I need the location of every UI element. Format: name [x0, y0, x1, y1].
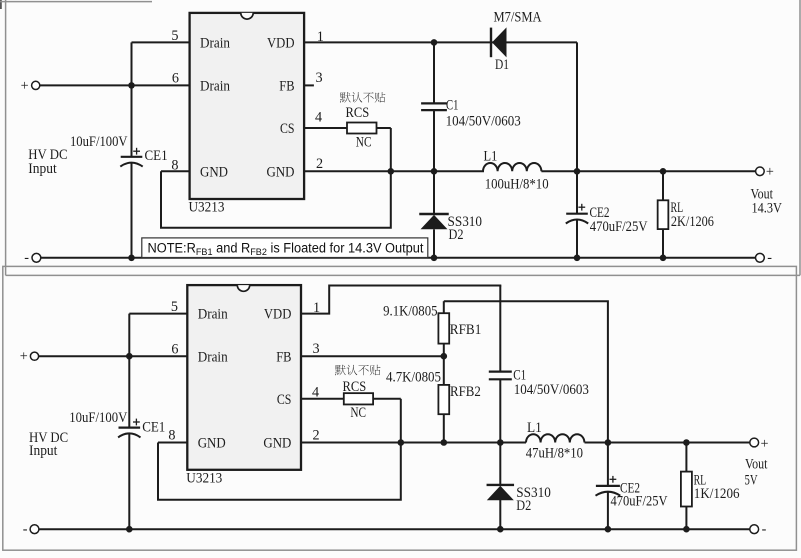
- pin number 4 top: [315, 110, 322, 126]
- node input junction CE1 top: [128, 82, 135, 89]
- label RCS top: [346, 105, 370, 121]
- resistor RL top: [658, 171, 669, 257]
- wire pin4 CS top: [304, 127, 347, 129]
- pin number 3 top: [316, 70, 323, 86]
- svg-text:5: 5: [171, 28, 178, 44]
- wire pin8 stub bottom: [158, 442, 187, 444]
- node C1/D2 junction bottom: [497, 439, 504, 446]
- diode D1 M7/SMA: [491, 27, 507, 57]
- svg-text:GND: GND: [263, 436, 291, 452]
- op-amp U1 IC U3213 top: [190, 13, 305, 199]
- label NC bottom: [350, 405, 366, 421]
- wire pin5 bottom: [129, 313, 187, 315]
- terminal - input bottom: [23, 521, 39, 537]
- wire pin5 top: [132, 41, 190, 43]
- node RL bottom rail: [683, 526, 690, 533]
- svg-text:-: -: [23, 521, 28, 537]
- pin number 6 bottom: [171, 342, 178, 358]
- label D2 bottom: [516, 498, 531, 514]
- inductor L1 bottom: [526, 434, 584, 442]
- svg-text:Input: Input: [28, 161, 56, 177]
- svg-text:4.7K/0805: 4.7K/0805: [386, 370, 441, 386]
- wire RCS to node top: [377, 128, 391, 171]
- svg-text:6: 6: [171, 342, 178, 358]
- inductor L1 top: [483, 163, 541, 171]
- pin number 8 top: [171, 157, 178, 173]
- node CE2 junction top: [574, 168, 581, 175]
- svg-text:6: 6: [172, 71, 179, 87]
- pin number 5 top: [171, 28, 178, 44]
- wire pin6 input rail bottom: [39, 355, 188, 357]
- node RL bottom top: [660, 254, 667, 261]
- resistor RCS top: [347, 123, 377, 134]
- svg-text:CE1: CE1: [142, 419, 165, 435]
- pin number 1 bottom: [313, 300, 320, 316]
- node loop junction bottom: [398, 439, 405, 446]
- svg-text:FB: FB: [276, 349, 291, 365]
- node C1 tap top: [431, 39, 438, 46]
- svg-text:CS: CS: [277, 392, 292, 408]
- svg-text:L1: L1: [484, 148, 498, 164]
- capacitor CE1 top: [120, 85, 142, 257]
- label RCS bottom: [343, 379, 367, 395]
- svg-text:10uF/100V: 10uF/100V: [69, 410, 128, 426]
- label U3213 top: [189, 200, 225, 216]
- svg-text:D2: D2: [449, 227, 464, 243]
- label D1: [495, 57, 509, 73]
- node input junction CE1 bottom: [126, 353, 133, 360]
- label 2K/1206 top: [671, 214, 714, 230]
- label default-not-mounted bottom: [335, 365, 380, 376]
- wire feedback top rail bottom: [444, 301, 608, 442]
- pin labels IC top: [200, 35, 295, 180]
- label 9.1K/0805: [383, 303, 437, 319]
- wire pin8 stub top: [161, 170, 190, 172]
- wire pin6 input rail top: [40, 84, 190, 86]
- label SS310 top: [448, 214, 483, 230]
- wire output rail bottom: [585, 442, 751, 444]
- note box floated FB: [142, 238, 428, 258]
- node RL junction top: [660, 168, 667, 175]
- node RL junction bottom: [683, 439, 690, 446]
- label 104/50V/0603 bottom: [514, 382, 589, 398]
- label C1 top: [446, 97, 458, 113]
- svg-text:CE1: CE1: [145, 148, 168, 164]
- wire pin1 VDD bottom: [301, 286, 500, 314]
- wire pin8 ground loop bottom: [158, 443, 401, 500]
- svg-text:Vout: Vout: [745, 457, 767, 473]
- svg-text:100uH/8*10: 100uH/8*10: [485, 177, 549, 193]
- terminal + output bottom: [750, 436, 769, 452]
- node CE2 junction bottom: [605, 439, 612, 446]
- svg-text:Drain: Drain: [200, 35, 230, 51]
- terminal - output top: [756, 250, 773, 266]
- label CE1 bottom: [142, 419, 165, 435]
- wire bottom rail bottom: [39, 528, 750, 530]
- top panel frame: [0, 0, 800, 275]
- svg-text:-: -: [762, 521, 767, 537]
- label 10uF/100V top: [70, 134, 128, 150]
- label CE2 top: [590, 205, 610, 221]
- label HV DC Input bottom: [29, 430, 68, 459]
- svg-text:2: 2: [313, 427, 320, 443]
- wire pin3 FB stub top: [304, 84, 314, 86]
- svg-text:8: 8: [168, 428, 175, 444]
- pin number 2 top: [316, 156, 323, 172]
- label Vout 5V bottom: [745, 457, 768, 489]
- svg-text:-: -: [24, 250, 29, 266]
- svg-text:104/50V/0603: 104/50V/0603: [446, 113, 521, 129]
- wire pin3 FB bottom: [301, 355, 444, 357]
- svg-text:GND: GND: [198, 436, 226, 452]
- pin number 1 top: [317, 29, 324, 45]
- node FB junction bottom: [441, 353, 448, 360]
- diode D2 SS310 bottom: [487, 443, 515, 530]
- label CE1 top: [145, 148, 168, 164]
- wire pin2 switch rail bottom: [301, 442, 526, 444]
- capacitor CE1 bottom: [118, 356, 140, 529]
- label RFB2: [450, 384, 481, 400]
- label 1K/1206 bottom: [694, 486, 740, 502]
- svg-text:Drain: Drain: [200, 78, 230, 94]
- svg-text:-: -: [767, 250, 772, 266]
- pin number 5 bottom: [171, 299, 178, 315]
- svg-text:D1: D1: [495, 57, 509, 73]
- svg-text:10uF/100V: 10uF/100V: [70, 134, 128, 150]
- node RCS/loop junction top: [388, 168, 395, 175]
- label L1 top: [484, 148, 498, 164]
- svg-text:GND: GND: [200, 164, 228, 180]
- resistor RCS bottom: [344, 393, 373, 404]
- svg-text:Drain: Drain: [198, 349, 228, 365]
- node CE2 bottom top: [574, 254, 581, 261]
- svg-text:GND: GND: [267, 164, 295, 180]
- svg-text:14.3V: 14.3V: [752, 200, 783, 216]
- wire pin4 CS bottom: [301, 398, 344, 400]
- svg-text:RFB1: RFB1: [450, 322, 482, 338]
- resistor RFB2: [438, 356, 449, 442]
- svg-text:2K/1206: 2K/1206: [671, 214, 714, 230]
- svg-text:RCS: RCS: [343, 379, 367, 395]
- svg-text:L1: L1: [527, 420, 542, 436]
- svg-text:4: 4: [315, 110, 322, 126]
- pin number 8 bottom: [168, 428, 175, 444]
- svg-text:+: +: [20, 349, 28, 365]
- capacitor CE2 bottom: [596, 443, 621, 530]
- svg-text:3: 3: [316, 70, 323, 86]
- label L1 bottom: [527, 420, 542, 436]
- svg-text:1K/1206: 1K/1206: [694, 486, 740, 502]
- svg-text:RCS: RCS: [346, 105, 370, 121]
- node D2 bottom rail: [497, 526, 504, 533]
- terminal + output top: [756, 164, 774, 180]
- label RFB1: [450, 322, 482, 338]
- label D2 top: [449, 227, 464, 243]
- label M7/SMA: [494, 10, 543, 26]
- label U3213 bottom: [186, 470, 222, 486]
- label SS310 bottom: [516, 485, 551, 501]
- label NC top: [356, 134, 372, 150]
- label 47uH/8*10 bottom: [526, 446, 583, 462]
- label RL bottom: [694, 472, 707, 488]
- svg-text:104/50V/0603: 104/50V/0603: [514, 382, 589, 398]
- wire riser input top: [131, 42, 133, 85]
- capacitor C1 top: [421, 42, 447, 171]
- svg-text:FB: FB: [279, 78, 294, 94]
- pin labels IC bottom: [198, 307, 292, 452]
- wire pin1 VDD rail top: [304, 41, 577, 43]
- wire pin2 switch rail top: [304, 170, 484, 172]
- svg-text:VDD: VDD: [267, 35, 295, 51]
- label 470uF/25V bottom: [611, 494, 669, 510]
- svg-text:+: +: [766, 164, 774, 180]
- wire pin8 ground loop top: [161, 171, 391, 227]
- svg-text:D2: D2: [516, 498, 531, 514]
- wire riser input bottom: [128, 314, 130, 357]
- pin number 4 bottom: [312, 385, 319, 401]
- node CE2 bottom rail: [605, 526, 612, 533]
- bottom panel frame: [3, 266, 797, 550]
- wire RCS to node bottom: [373, 399, 401, 443]
- svg-text:47uH/8*10: 47uH/8*10: [526, 446, 583, 462]
- node CE1 bottom rail: [126, 526, 133, 533]
- pin number 2 bottom: [313, 427, 320, 443]
- svg-text:Input: Input: [29, 443, 57, 459]
- svg-text:470uF/25V: 470uF/25V: [590, 219, 648, 235]
- node CE1 bottom top: [128, 254, 135, 261]
- node C1/D2 junction top: [431, 168, 438, 175]
- resistor RFB1: [438, 301, 449, 356]
- label C1 bottom: [513, 368, 526, 384]
- svg-text:CS: CS: [280, 121, 295, 137]
- diode D2 SS310 top: [419, 171, 449, 257]
- terminal - output bottom: [750, 521, 767, 537]
- svg-text:3: 3: [313, 341, 320, 357]
- label default-not-mounted top: [340, 92, 385, 103]
- pin number 6 top: [172, 71, 179, 87]
- label 470uF/25V top: [590, 219, 648, 235]
- node RFB2 junction bottom: [441, 439, 448, 446]
- label 100uH/8*10 top: [485, 177, 549, 193]
- svg-text:C1: C1: [446, 97, 458, 113]
- capacitor C1 bottom: [489, 286, 512, 443]
- node D2 bottom top: [431, 254, 438, 261]
- resistor RL bottom: [681, 443, 692, 530]
- wire output rail top: [541, 170, 755, 172]
- svg-text:M7/SMA: M7/SMA: [494, 10, 543, 26]
- svg-text:NOTE:RFB1 and RFB2 is Floated: NOTE:RFB1 and RFB2 is Floated for 14.3V …: [148, 241, 424, 259]
- label RL top: [671, 200, 684, 216]
- svg-text:5V: 5V: [745, 472, 759, 488]
- svg-text:Drain: Drain: [198, 307, 228, 323]
- svg-text:NC: NC: [356, 134, 372, 150]
- wire bottom rail top: [41, 257, 756, 259]
- svg-text:9.1K/0805: 9.1K/0805: [383, 303, 437, 319]
- label 4.7K/0805: [386, 370, 441, 386]
- op-amp U2 IC U3213 bottom: [187, 285, 301, 470]
- svg-text:+: +: [21, 78, 29, 94]
- svg-text:U3213: U3213: [189, 200, 225, 216]
- label HV DC Input top: [28, 147, 67, 177]
- terminal - input top: [24, 250, 41, 266]
- svg-text:+: +: [761, 436, 769, 452]
- svg-text:470uF/25V: 470uF/25V: [611, 494, 669, 510]
- pin number 3 bottom: [313, 341, 320, 357]
- svg-text:NC: NC: [350, 405, 366, 421]
- label CE2 bottom: [620, 481, 640, 497]
- svg-text:RFB2: RFB2: [450, 384, 481, 400]
- svg-text:U3213: U3213: [186, 470, 222, 486]
- capacitor CE2 top: [566, 171, 588, 257]
- label Vout 14.3V top: [751, 186, 783, 216]
- terminal + input top: [21, 78, 40, 94]
- svg-text:VDD: VDD: [264, 307, 292, 323]
- label 104/50V/0603 top: [446, 113, 521, 129]
- terminal + input bottom: [20, 349, 39, 365]
- svg-text:2: 2: [316, 156, 323, 172]
- wire D1 drop top: [576, 42, 578, 171]
- label 10uF/100V bottom: [69, 410, 128, 426]
- svg-text:5: 5: [171, 299, 178, 315]
